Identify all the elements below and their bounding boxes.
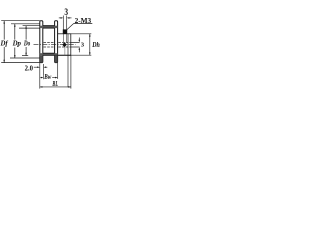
bore hidden lines: [40, 41, 71, 43]
tooth band bottom fill: [40, 53, 58, 55]
bore top ext right: [71, 41, 80, 43]
arrow Dp up: [14, 24, 16, 27]
tooth band top fill: [40, 26, 58, 28]
hub step edge: [67, 34, 69, 55]
svg-text:Bw: Bw: [44, 73, 52, 81]
bore bottom ext right: [71, 46, 80, 48]
svg-text:3: 3: [81, 42, 85, 49]
svg-text:3: 3: [64, 7, 68, 17]
Bw line left seg: [40, 77, 42, 79]
dim line Do: [25, 26, 27, 40]
L dim line: [40, 86, 71, 88]
ext vertical hub step: [67, 55, 69, 87]
dim line Dp: [14, 24, 16, 40]
bore arrows: [79, 40, 81, 43]
2.0 right-point arrow: [37, 66, 40, 68]
flange left bottom dark: [40, 55, 43, 62]
screw shaft side lines: [62, 20, 64, 30]
ext line Df bottom: [1, 62, 40, 64]
ext line Dp bottom: [10, 57, 40, 59]
L right arrow: [68, 86, 71, 88]
svg-text:Dh: Dh: [91, 41, 99, 49]
bore dim line segs: [78, 38, 80, 41]
tapped hole hidden lines: [62, 34, 64, 43]
L left arrow: [40, 86, 43, 88]
ext vertical at flange inner+1: [43, 64, 45, 79]
Dh arrows: [89, 34, 91, 37]
2.0 arrow tails: [34, 66, 38, 68]
drill point diamond in bore: [62, 42, 67, 47]
tooth band bottom lines: [43, 52, 55, 54]
screw hole hidden line below bore: [64, 47, 66, 55]
Bw line right seg: [52, 77, 56, 79]
ext line tooth tip top / Do: [23, 25, 55, 27]
svg-text:Dp: Dp: [12, 39, 22, 48]
screw body block: [63, 29, 67, 34]
hub top ext right: [71, 33, 92, 35]
arrow Df down: [3, 60, 5, 63]
flange right bottom dark: [55, 55, 58, 62]
Bw right arrow (points right): [55, 77, 58, 79]
flange right: [55, 21, 58, 63]
dim line Df: [3, 21, 5, 40]
ext vertical right flange outer face: [57, 63, 59, 79]
svg-text:2.0: 2.0: [25, 64, 33, 73]
ext line Do bottom stub: [22, 55, 28, 57]
ext line tooth root top: [19, 27, 55, 29]
svg-text:Do: Do: [23, 39, 30, 48]
dim 3 line + arrows: [59, 17, 61, 19]
ext vertical hub right face: [70, 55, 72, 88]
arrow Dp down: [14, 55, 16, 58]
svg-text:BL: BL: [52, 81, 58, 88]
tooth band top lines: [43, 25, 55, 27]
ext line Dp top: [11, 23, 40, 25]
arrow Df up: [3, 21, 5, 24]
Dh dim line: [89, 34, 91, 55]
2.0 left-point arrow: [44, 66, 47, 68]
leader to screw: [67, 23, 74, 30]
label Bw: [44, 75, 52, 80]
Bw left arrow (points right): [41, 77, 44, 79]
dim 3 ext ticks: [62, 16, 64, 20]
arrow Do up: [25, 26, 27, 29]
ext line Df top: [1, 20, 40, 22]
axis center line: [34, 44, 76, 46]
arrow Do down: [25, 53, 27, 56]
svg-text:Df: Df: [0, 39, 9, 48]
hub block: [58, 34, 71, 55]
ext vertical at left flange outer face: [39, 63, 41, 89]
flange left: [40, 21, 43, 63]
hub bottom ext right: [71, 54, 92, 56]
